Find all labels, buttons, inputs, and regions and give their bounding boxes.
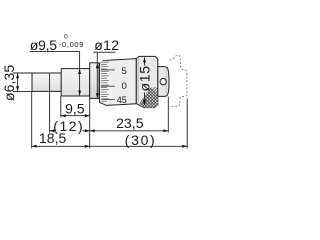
dashed optional-accessory outline: [170, 55, 187, 106]
dimension (12) line: [50, 130, 54, 132]
thimble major graduation lines: [101, 70, 115, 100]
thimble tick band background: [100, 61, 113, 103]
extension line stem left: [60, 96, 62, 117]
leader + diameter line ø9,5: [79, 52, 81, 96]
extension line spindle face: [31, 92, 33, 148]
ø6,35 dimension line: [17, 73, 19, 91]
svg-text:9,5: 9,5: [65, 100, 85, 116]
svg-text:45: 45: [117, 95, 127, 105]
svg-text:(30): (30): [125, 132, 155, 148]
ratchet spanner hole: [160, 78, 166, 84]
leader underline ø9,5: [30, 51, 80, 53]
dimension (30) line: [90, 145, 188, 147]
extension line (12) left: [49, 73, 51, 133]
extension line ratchet end: [167, 97, 169, 133]
svg-text:ø9,5: ø9,5: [30, 37, 58, 53]
stem (ø9.5): [61, 69, 89, 96]
dimension 9,5 line: [61, 115, 90, 117]
ø15 dimension line: [144, 58, 146, 66]
svg-text:23,5: 23,5: [116, 115, 144, 131]
ratchet stop: [158, 67, 169, 97]
spindle (ø6.35 shaft): [32, 73, 61, 91]
dimension 23,5 line: [90, 130, 169, 132]
svg-text:ø6,35: ø6,35: [1, 65, 17, 101]
extension line dashed end: [186, 99, 188, 149]
thimble graduation ticks: [101, 62, 109, 101]
svg-text:18,5: 18,5: [39, 130, 67, 146]
leader + diameter line ø12: [96, 52, 98, 98]
knurl cross-hatch: [138, 70, 160, 203]
dimension 18,5 line: [32, 145, 90, 147]
extension line stem right / body left: [89, 99, 91, 149]
svg-text:0: 0: [122, 81, 127, 92]
svg-text:ø12: ø12: [94, 37, 119, 53]
body ring (ø12): [90, 63, 99, 99]
svg-text:5: 5: [122, 66, 127, 77]
thimble body: [100, 59, 137, 106]
knurled cap: [136, 56, 158, 107]
ø6,35 extension lines: [13, 72, 32, 74]
svg-text:-0,009: -0,009: [59, 40, 84, 49]
leader underline ø12: [93, 51, 115, 53]
svg-text:ø15: ø15: [136, 66, 152, 92]
